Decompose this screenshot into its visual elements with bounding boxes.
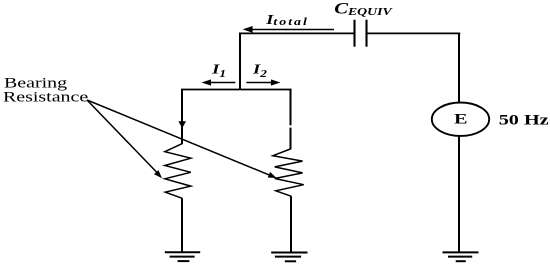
wire: middle horizontal branch wire xyxy=(181,89,292,91)
current arrow I_total xyxy=(243,26,334,33)
wire: from source E down to ground xyxy=(458,136,460,253)
svg-text:50 Hz: 50 Hz xyxy=(499,111,549,128)
svg-text:Resistance: Resistance xyxy=(3,88,88,105)
ground (left) xyxy=(165,252,200,261)
current arrow I1 xyxy=(202,79,236,85)
svg-text:Itotal: Itotal xyxy=(265,13,309,28)
source E (AC source ellipse) xyxy=(432,103,489,136)
wire: top horizontal, right of capacitor xyxy=(367,32,460,34)
wire: right branch lower segment xyxy=(290,196,292,252)
ground (right) xyxy=(271,253,307,262)
resistor R2 (right bearing resistance) xyxy=(273,149,304,196)
svg-text:CEQUIV: CEQUIV xyxy=(334,0,392,17)
wire: left branch lower segment xyxy=(181,198,183,252)
ground (under source E) xyxy=(443,252,479,261)
capacitor C_EQUIV plates xyxy=(355,20,367,47)
wire: right vertical from top wire to source E xyxy=(458,33,460,103)
wire: left branch upper segment xyxy=(181,89,183,144)
current arrow I2 xyxy=(246,79,280,85)
wire: right branch upper segment (with small gap) xyxy=(290,89,292,149)
svg-text:I2: I2 xyxy=(252,61,267,80)
annotation arrow to resistor R2 xyxy=(87,100,277,178)
svg-text:E: E xyxy=(454,110,467,127)
arrowhead: current direction down on left branch xyxy=(178,121,186,128)
svg-text:I1: I1 xyxy=(211,61,226,80)
wire: left vertical from top wire down to branch wire xyxy=(239,33,241,90)
annotation arrow to resistor R1 xyxy=(87,100,162,178)
resistor R1 (left bearing resistance) xyxy=(165,144,191,199)
wire: top horizontal, left of capacitor xyxy=(239,32,354,34)
